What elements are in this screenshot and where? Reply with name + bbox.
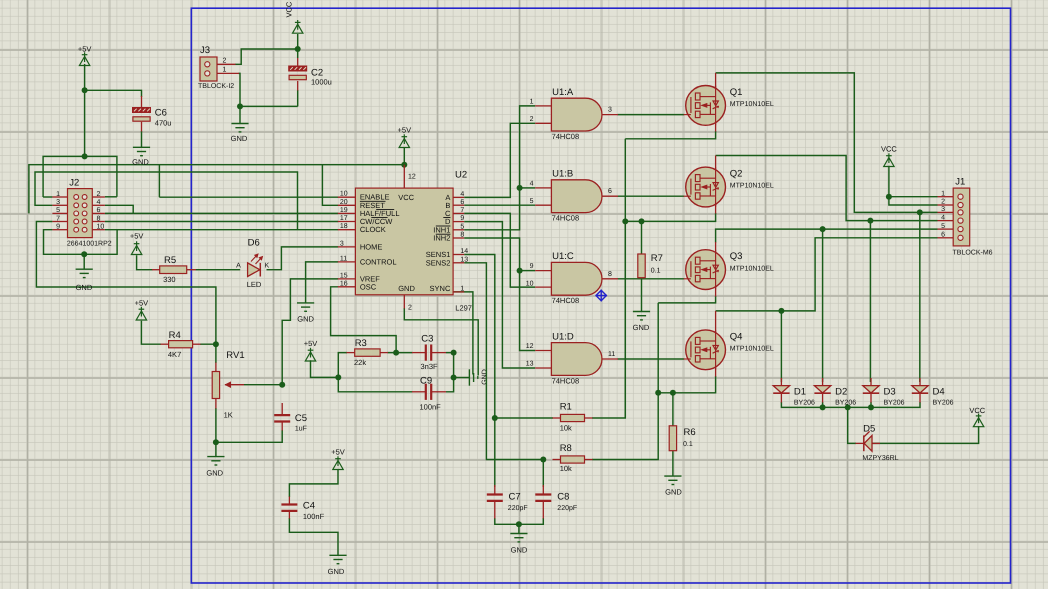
- wire SENS1 rail upper: [624, 139, 626, 418]
- svg-text:D3: D3: [884, 387, 896, 398]
- svg-text:220pF: 220pF: [557, 505, 577, 512]
- transistor Q3 MTP10N10EL: [684, 250, 726, 290]
- svg-text:22k: 22k: [354, 358, 366, 367]
- svg-text:GND: GND: [297, 315, 314, 324]
- svg-text:R4: R4: [169, 330, 181, 341]
- junction +5V C6: [82, 87, 88, 93]
- wire R6 stem top: [672, 393, 674, 426]
- junction R3 +5V C9: [335, 374, 341, 380]
- svg-text:4: 4: [460, 191, 464, 198]
- J2 pin numbers: [56, 191, 104, 231]
- wire D6 K to HOME: [267, 247, 339, 270]
- svg-text:D6: D6: [248, 238, 260, 249]
- wire SENS1 to R1 C7: [464, 255, 495, 488]
- J2 pin circles: [74, 195, 87, 233]
- svg-text:7: 7: [56, 215, 60, 222]
- wire CLOCK line: [117, 229, 338, 231]
- wire R7 stem top: [641, 221, 643, 254]
- wire +5V rail top-left: [84, 64, 86, 156]
- diode D1 BY206: [773, 386, 789, 394]
- J1 pin circles: [958, 194, 963, 240]
- svg-text:0.1: 0.1: [683, 441, 693, 448]
- svg-text:D2: D2: [835, 387, 847, 398]
- lead C6 top: [141, 96, 143, 108]
- wire D5 riser: [848, 407, 856, 443]
- wire Q2 source line: [625, 213, 715, 221]
- wire RV1 bottom: [215, 408, 217, 442]
- U1:B pin numbers: [530, 180, 612, 205]
- potentiometer RV1 1K: [212, 372, 244, 399]
- J3 pin circles: [205, 62, 210, 67]
- svg-text:MTP10N10EL: MTP10N10EL: [730, 265, 774, 272]
- wire Q2 drain to J1 pin4: [716, 156, 938, 221]
- wire VREF: [282, 279, 338, 385]
- wire R1 left: [495, 417, 553, 419]
- svg-text:2: 2: [408, 305, 412, 312]
- wire RESET +5V: [322, 165, 338, 206]
- svg-text:11: 11: [608, 351, 615, 358]
- wire Q4 drain to J1 pin6: [716, 238, 938, 311]
- wire SYNC to gnd: [453, 292, 473, 375]
- wire +5V to R5: [137, 255, 153, 270]
- and-gate U1:D 74HC08: [551, 343, 602, 376]
- wire INH1 branch U1B: [520, 187, 536, 189]
- wire C to U1C: [464, 213, 535, 287]
- svg-text:15: 15: [340, 272, 348, 279]
- junction D2 tap: [820, 226, 826, 232]
- svg-text:2: 2: [97, 191, 101, 198]
- wire U1B out: [618, 195, 685, 197]
- wire J1 pin1 branch: [889, 196, 938, 198]
- svg-text:VCC: VCC: [398, 193, 414, 202]
- and-gate U1:B 74HC08: [551, 180, 602, 213]
- svg-text:220pF: 220pF: [508, 505, 528, 512]
- J1 pin numbers: [941, 190, 945, 238]
- svg-text:330: 330: [163, 275, 176, 284]
- svg-text:10: 10: [526, 280, 534, 287]
- svg-text:C3: C3: [421, 334, 433, 345]
- wire R8 right rail: [592, 303, 658, 460]
- wire CONTROL to gnd: [306, 262, 339, 303]
- wire R6 stem bottom: [672, 451, 674, 477]
- wire OSC route: [331, 287, 397, 353]
- svg-text:0.1: 0.1: [651, 268, 661, 275]
- svg-text:D1: D1: [794, 387, 806, 398]
- wire RV1 gnd stem: [215, 442, 217, 456]
- ground J2: [76, 269, 93, 277]
- connector J3 TBLOCK-I2 body: [200, 57, 217, 81]
- svg-text:100nF: 100nF: [420, 402, 442, 411]
- svg-text:D4: D4: [933, 387, 945, 398]
- svg-text:Q2: Q2: [730, 169, 743, 180]
- wire J2 pin9 pin10 gnd loop: [44, 230, 118, 255]
- wire INH1 to gates: [464, 106, 535, 230]
- D5 leads: [856, 442, 881, 444]
- and-gate U1:C 74HC08: [551, 262, 602, 295]
- svg-text:A: A: [236, 263, 241, 270]
- svg-text:+5V: +5V: [304, 339, 318, 348]
- wire ENABLE line: [159, 196, 338, 198]
- junction rail D3: [868, 404, 874, 410]
- svg-text:10k: 10k: [560, 424, 572, 433]
- wire J3 pin2 to VCC: [235, 49, 298, 64]
- svg-text:2: 2: [941, 199, 945, 206]
- svg-text:GND: GND: [398, 284, 415, 293]
- U2 pin leads: [338, 197, 464, 292]
- svg-text:Q1: Q1: [730, 87, 743, 98]
- svg-text:R8: R8: [560, 443, 572, 454]
- svg-text:U1:C: U1:C: [552, 251, 574, 262]
- svg-text:4: 4: [941, 214, 945, 221]
- wire Q3 drain to J1 pin5: [716, 229, 938, 242]
- svg-text:7: 7: [460, 207, 464, 214]
- U1:C pin numbers: [526, 263, 612, 288]
- svg-text:CLOCK: CLOCK: [360, 225, 386, 234]
- wire U1C out: [618, 278, 685, 280]
- junction INH2 branch: [517, 268, 523, 274]
- resistor R8 10k: [561, 456, 585, 463]
- wire +5V to R3 node: [311, 360, 339, 377]
- svg-text:GND: GND: [76, 283, 93, 292]
- svg-text:Q4: Q4: [730, 331, 743, 342]
- power VCC top: [293, 20, 303, 33]
- junction C3 right: [451, 350, 457, 356]
- transistor Q2 MTP10N10EL: [684, 167, 726, 207]
- wire C4 bottom: [289, 518, 338, 555]
- U2 overbars: [360, 201, 451, 234]
- svg-text:1K: 1K: [224, 411, 233, 420]
- wire U1D out: [618, 358, 685, 360]
- svg-text:20: 20: [340, 199, 348, 206]
- svg-text:R5: R5: [164, 255, 176, 266]
- wire C6 branch: [85, 90, 142, 97]
- wire HALF-FULL line: [105, 212, 338, 214]
- junction J2 gnd: [81, 251, 87, 257]
- wire J3 gnd stem: [239, 106, 241, 123]
- svg-text:TBLOCK-I2: TBLOCK-I2: [198, 83, 234, 90]
- wire VCC stem: [297, 34, 299, 58]
- wire Q3 source: [658, 296, 715, 303]
- capacitor leads red: [216, 353, 543, 519]
- svg-text:J2: J2: [69, 178, 79, 189]
- wire net D-J2pin5 +5V long line: [29, 165, 404, 214]
- svg-text:4: 4: [97, 199, 101, 206]
- ground C4: [329, 555, 346, 563]
- svg-text:6: 6: [608, 188, 612, 195]
- junction VCC C2: [295, 46, 301, 52]
- svg-text:C5: C5: [295, 413, 307, 424]
- led D6: [248, 254, 263, 276]
- wire Q1 drain to J1 pin3: [716, 73, 938, 213]
- junction rail D5: [845, 404, 851, 410]
- svg-text:C6: C6: [155, 108, 167, 119]
- svg-text:MTP10N10EL: MTP10N10EL: [730, 346, 774, 353]
- svg-text:HOME: HOME: [360, 242, 383, 251]
- svg-text:10: 10: [97, 224, 105, 231]
- power +5V top-left: [79, 52, 89, 65]
- svg-text:1: 1: [530, 99, 534, 106]
- capacitor C6 470u: [133, 108, 151, 122]
- svg-text:GND: GND: [665, 488, 682, 497]
- wire C9 left: [338, 377, 412, 391]
- svg-text:1: 1: [941, 190, 945, 197]
- svg-text:6: 6: [460, 199, 464, 206]
- junction R4 RV1: [213, 341, 219, 347]
- svg-text:6: 6: [941, 232, 945, 239]
- svg-text:18: 18: [340, 223, 348, 230]
- wire C7C8 gnd stem: [518, 524, 520, 533]
- svg-text:GND: GND: [511, 546, 528, 555]
- wire SENS2 to R8: [464, 263, 544, 460]
- svg-text:D5: D5: [863, 424, 875, 435]
- wire R5 to D6: [196, 269, 241, 271]
- svg-text:12: 12: [408, 174, 416, 181]
- svg-text:4K7: 4K7: [168, 350, 181, 359]
- ground C7 C8: [510, 534, 527, 542]
- svg-text:11: 11: [340, 255, 347, 262]
- ground RV1: [207, 457, 224, 465]
- svg-text:C7: C7: [509, 492, 521, 503]
- sheet border: [191, 8, 1010, 583]
- U2 internal labels: [360, 193, 451, 294]
- svg-text:1: 1: [460, 285, 464, 292]
- U1:D pin numbers: [526, 343, 616, 368]
- junction R1 SENS1: [492, 415, 498, 421]
- svg-text:1: 1: [223, 67, 227, 74]
- svg-text:16: 16: [340, 280, 348, 287]
- wire D2 bottom: [822, 402, 824, 407]
- svg-text:100nF: 100nF: [303, 512, 325, 521]
- junction VREF wiper C5: [279, 382, 285, 388]
- U1:A pin numbers: [530, 99, 612, 124]
- svg-text:J3: J3: [200, 45, 210, 56]
- wire J2 pin2: [105, 196, 117, 198]
- power +5V R4: [136, 307, 146, 320]
- Q drain source leads: [715, 73, 717, 377]
- J2 pin leads: [52, 197, 105, 230]
- capacitor C7 220pF: [487, 495, 503, 501]
- wire R1 right rail: [592, 221, 625, 418]
- svg-text:13: 13: [526, 361, 534, 368]
- wire D to U1D: [464, 222, 535, 368]
- transistor Q1 MTP10N10EL: [684, 86, 726, 126]
- svg-text:74HC08: 74HC08: [552, 132, 580, 141]
- ground J3: [231, 124, 248, 132]
- svg-text:8: 8: [608, 271, 612, 278]
- resistor R6 0.1: [669, 426, 676, 451]
- svg-text:+5V: +5V: [130, 232, 144, 241]
- junction D3 tap: [867, 218, 873, 224]
- svg-text:5: 5: [530, 198, 534, 205]
- svg-text:GND: GND: [132, 158, 149, 167]
- capacitor C8 220pF: [535, 495, 551, 501]
- junction C7C8 gnd: [516, 521, 522, 527]
- svg-text:12: 12: [526, 343, 534, 350]
- svg-text:8: 8: [97, 215, 101, 222]
- junction R8 C8: [540, 457, 546, 463]
- resistor R3 22k: [355, 349, 380, 356]
- wire D5 to VCC: [872, 426, 979, 443]
- svg-text:R1: R1: [560, 401, 572, 412]
- svg-text:BY206: BY206: [835, 399, 856, 406]
- svg-text:10k: 10k: [560, 464, 572, 473]
- junction D1 tap: [778, 308, 784, 314]
- ground CONTROL: [297, 303, 314, 311]
- svg-text:1000u: 1000u: [311, 78, 332, 87]
- svg-text:CONTROL: CONTROL: [360, 257, 397, 266]
- wire J2 gnd stem: [83, 254, 85, 269]
- wire C3 right rail: [446, 353, 454, 392]
- wire +5V J2 header: [43, 156, 117, 197]
- power VCC D5: [973, 414, 983, 427]
- junction D4 tap: [917, 209, 923, 215]
- svg-text:74HC08: 74HC08: [552, 214, 580, 223]
- svg-text:BY206: BY206: [933, 399, 954, 406]
- svg-text:MTP10N10EL: MTP10N10EL: [730, 101, 774, 108]
- svg-text:4: 4: [530, 180, 534, 187]
- svg-text:MZPY36RL: MZPY36RL: [862, 455, 898, 462]
- U1 gate input leads: [535, 106, 618, 368]
- svg-text:U2: U2: [455, 170, 467, 181]
- svg-text:9: 9: [530, 263, 534, 270]
- junction R3 C3 OSC: [393, 350, 399, 356]
- wire R4 to RV1: [200, 344, 216, 363]
- junction RV1 C5 gnd: [213, 439, 219, 445]
- svg-text:MTP10N10EL: MTP10N10EL: [730, 183, 774, 190]
- junction rail D2: [820, 404, 826, 410]
- svg-text:13: 13: [460, 256, 468, 263]
- diode D5 MZPY36RL: [864, 431, 872, 451]
- wire R3 right to C3: [388, 352, 413, 354]
- svg-text:3: 3: [56, 199, 60, 206]
- svg-text:OSC: OSC: [360, 282, 377, 291]
- junction U2 vcc: [401, 162, 407, 168]
- power +5V R3: [305, 348, 315, 361]
- svg-text:C8: C8: [557, 492, 569, 503]
- svg-text:+5V: +5V: [78, 45, 92, 54]
- power +5V R5: [131, 241, 141, 254]
- wire R3 left: [338, 353, 347, 378]
- wire gnd tap: [454, 377, 470, 379]
- ic U2 L297 body: [355, 188, 453, 295]
- ground C6: [133, 147, 150, 155]
- capacitor C2 1000u: [289, 66, 307, 80]
- power VCC J1: [884, 153, 894, 166]
- svg-text:TBLOCK-M6: TBLOCK-M6: [953, 250, 993, 257]
- lead C6 bottom: [141, 122, 143, 132]
- wire Q1 source: [625, 131, 715, 139]
- svg-text:26641001RP2: 26641001RP2: [67, 241, 112, 248]
- wire diode cathode rail: [781, 402, 920, 407]
- power +5V U2: [399, 134, 409, 147]
- diode D4 BY206: [912, 386, 928, 394]
- wire C6 bottom: [141, 131, 143, 147]
- svg-text:VCC: VCC: [285, 1, 294, 17]
- svg-text:2: 2: [223, 57, 227, 64]
- svg-text:C9: C9: [420, 376, 432, 387]
- junction R6 tap: [670, 390, 676, 396]
- svg-text:2: 2: [530, 116, 534, 123]
- wire D1 riser: [780, 311, 782, 382]
- svg-text:GND: GND: [482, 369, 489, 385]
- svg-text:5: 5: [460, 223, 464, 230]
- wire RV1 wiper: [244, 384, 282, 386]
- svg-text:R7: R7: [651, 253, 663, 264]
- wire C8 stem: [542, 460, 544, 488]
- svg-text:470u: 470u: [155, 119, 172, 128]
- diode D2 BY206: [814, 386, 830, 394]
- U2 pin12 lead: [403, 165, 405, 188]
- svg-text:74HC08: 74HC08: [552, 376, 580, 385]
- U2 pin2 lead: [403, 295, 405, 309]
- svg-text:RV1: RV1: [226, 350, 244, 361]
- junction +5V J2: [82, 153, 88, 159]
- wire CW-CCW line: [105, 221, 338, 223]
- wire +5V U2: [403, 147, 405, 165]
- J1 pin leads: [938, 197, 954, 238]
- origin marker blue diamond: [596, 290, 607, 301]
- wire J2 pin1: [43, 196, 52, 198]
- wire U2 gnd pin2 route: [404, 308, 478, 376]
- junction C9 gnd node: [451, 375, 457, 381]
- svg-text:SYNC: SYNC: [430, 284, 451, 293]
- svg-text:U1:A: U1:A: [552, 87, 574, 98]
- wire INH2 branch U1C: [520, 270, 536, 272]
- svg-text:3n3F: 3n3F: [421, 362, 439, 371]
- svg-text:SENS2: SENS2: [426, 258, 451, 267]
- wire Q4 source: [658, 376, 715, 393]
- svg-text:INH2: INH2: [433, 234, 450, 243]
- junction J3 gnd: [237, 103, 243, 109]
- wire J2 pin7 to RV1: [36, 222, 216, 345]
- svg-text:VCC: VCC: [969, 406, 985, 415]
- svg-text:19: 19: [340, 207, 348, 214]
- capacitor C3 3n3F: [426, 345, 431, 361]
- svg-text:3: 3: [941, 206, 945, 213]
- junction SENS1 rail Q2: [622, 218, 628, 224]
- svg-text:3: 3: [340, 240, 344, 247]
- svg-text:U1:D: U1:D: [552, 331, 574, 342]
- svg-text:R3: R3: [355, 338, 367, 349]
- svg-text:U1:B: U1:B: [552, 169, 573, 180]
- svg-text:+5V: +5V: [331, 448, 345, 457]
- wire C2 bottom: [297, 90, 299, 106]
- junction VCC J1: [886, 194, 892, 200]
- svg-text:LED: LED: [247, 280, 262, 289]
- svg-text:74HC08: 74HC08: [552, 296, 580, 305]
- lead C2 bottom: [297, 81, 299, 91]
- capacitor C4 100nF: [281, 505, 297, 511]
- svg-text:BY206: BY206: [884, 399, 905, 406]
- svg-text:J1: J1: [955, 177, 965, 188]
- svg-text:1uF: 1uF: [295, 426, 307, 433]
- connector J2 26641001RP2 body: [68, 189, 93, 238]
- svg-text:GND: GND: [328, 567, 345, 576]
- wire J2 pin4 jog: [105, 205, 133, 213]
- wire A to U1A: [464, 123, 535, 197]
- svg-text:R6: R6: [684, 427, 696, 438]
- svg-text:17: 17: [340, 215, 348, 222]
- wire J2 pin3 to CLOCK: [35, 172, 298, 230]
- svg-text:GND: GND: [206, 469, 223, 478]
- junction SENS2 rail: [655, 390, 661, 396]
- svg-text:GND: GND: [231, 134, 248, 143]
- svg-text:14: 14: [460, 248, 468, 255]
- svg-text:Q3: Q3: [730, 251, 743, 262]
- U2 pin numbers: [340, 174, 468, 312]
- svg-text:10: 10: [340, 191, 348, 198]
- connector J1 TBLOCK-M6 body: [953, 188, 970, 246]
